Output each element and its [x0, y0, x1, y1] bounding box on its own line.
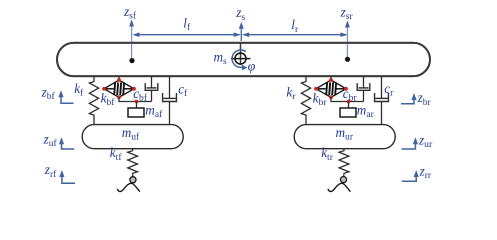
- coordinate z_ur arrow: [402, 144, 416, 149]
- pivot node: diamond left: [102, 87, 106, 91]
- wire to mass m_ar: [348, 102, 350, 109]
- pivot node: rear diamond top: [329, 78, 333, 82]
- mass m_ar: [340, 108, 356, 117]
- mass m_af: [128, 108, 144, 117]
- pivot node: rear diamond right: [344, 87, 348, 91]
- coordinate z_sr arrow: [346, 26, 348, 60]
- coordinate z_rr arrow: [402, 176, 416, 181]
- pivot node: diamond bottom: [117, 95, 121, 99]
- damper c_br: [363, 76, 365, 88]
- tyre spring k_tr: [339, 149, 349, 175]
- coordinate z_uf arrow: [62, 143, 75, 149]
- wire to mass m_af: [136, 102, 138, 109]
- scissor linkage diamond (rear absorber): [316, 80, 346, 97]
- node on absorber bar: [135, 100, 139, 104]
- pivot node: rear diamond bottom: [329, 95, 333, 99]
- road profile squiggle (rear): [328, 183, 350, 191]
- coordinate z_sf arrow: [131, 25, 133, 61]
- tyre spring k_tf: [128, 149, 138, 175]
- coordinate z_br arrow: [401, 100, 414, 104]
- unsprung mass m_ur: [294, 125, 395, 149]
- dimension l_r double arrow: [244, 34, 347, 36]
- coordinate z_rf arrow: [62, 176, 75, 183]
- wire: rear absorber bottom bar: [331, 97, 364, 101]
- wire: absorber bottom bar: [119, 97, 152, 101]
- pivot node: diamond top: [117, 78, 121, 82]
- damper c_bf: [151, 76, 153, 88]
- damper c_f: [169, 76, 171, 98]
- dimension l_f double arrow: [134, 34, 240, 36]
- pivot node: rear diamond left: [314, 87, 318, 91]
- sprung mass beam outline (over arrows): [57, 43, 430, 76]
- pivot node: diamond right: [132, 87, 136, 91]
- scissor linkage diamond (front absorber): [104, 80, 134, 97]
- coordinate z_bf arrow: [61, 96, 74, 103]
- road contact point (rear): [340, 177, 346, 183]
- road profile squiggle (front): [117, 183, 139, 191]
- sprung mass beam: [57, 43, 430, 76]
- pitch angle phi arc arrow: [232, 50, 246, 67]
- coordinate z_s arrow: [240, 27, 242, 41]
- node on rear absorber bar: [347, 100, 351, 104]
- spring k_bf inside diamond: [104, 88, 114, 90]
- spring k_f: [89, 76, 98, 125]
- spring k_r: [301, 76, 310, 125]
- centre of gravity symbol (circle-cross): [240, 43, 242, 65]
- road contact point (front): [130, 177, 136, 183]
- node: front axle attachment dot: [129, 58, 134, 63]
- unsprung mass m_uf: [82, 125, 183, 149]
- spring k_br inside diamond: [316, 88, 326, 90]
- node: rear axle attachment dot: [345, 57, 350, 62]
- damper c_r: [381, 76, 383, 98]
- svg-text:φ: φ: [248, 60, 256, 75]
